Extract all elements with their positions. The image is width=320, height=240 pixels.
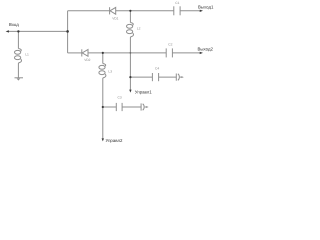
inductor L2: [130, 23, 133, 26]
terminal arrow input: [6, 30, 9, 32]
wire stub upper feedthrough: [180, 76, 182, 78]
wire L3 branch vertical middle: [102, 79, 104, 108]
wire mid row segment 2: [88, 52, 166, 54]
junction C4 row: [129, 76, 131, 78]
capacitor C2 plates: [165, 48, 167, 57]
diode VD2 triangle: [82, 50, 88, 57]
wire input horizontal: [9, 30, 68, 32]
wire L1 to ground: [17, 64, 19, 78]
terminal arrow output1: [200, 10, 203, 12]
svg-text:VD2: VD2: [84, 58, 90, 62]
terminal arrow control2: [102, 138, 104, 141]
svg-text:C1: C1: [175, 1, 179, 5]
inductor L3: [103, 64, 106, 67]
wire C4 row: [130, 76, 152, 78]
capacitor C4 plates: [151, 73, 153, 81]
terminal arrow output2: [200, 52, 203, 54]
junction C3 row: [102, 106, 104, 108]
wire stub lower feedthrough: [145, 106, 147, 108]
wire L2 branch vertical top: [129, 11, 131, 23]
diode VD1 cathode bar: [109, 7, 111, 14]
svg-text:C2: C2: [168, 43, 172, 47]
wire mid row segment 1: [68, 52, 82, 54]
terminal arrow control1: [129, 90, 131, 93]
svg-text:Выход2: Выход2: [198, 47, 214, 52]
feedthrough capacitor arc lower: [143, 104, 144, 111]
diode VD1 triangle: [110, 7, 116, 14]
inductor L1: [18, 49, 21, 52]
junction mid row L3: [102, 52, 104, 54]
svg-text:C4: C4: [155, 67, 159, 71]
wire top rail segment 2: [116, 10, 174, 12]
wire C3 row: [103, 106, 117, 108]
ground arrow triangle: [17, 79, 21, 81]
wire left vertical: [67, 11, 69, 53]
svg-text:L2: L2: [137, 27, 141, 31]
svg-text:Выход1: Выход1: [198, 5, 214, 10]
svg-text:Управл1: Управл1: [135, 89, 152, 94]
wire L3 branch vertical bottom: [102, 107, 104, 139]
svg-text:Вход: Вход: [9, 22, 19, 27]
capacitor C1 plates: [173, 6, 175, 15]
junction left T: [66, 30, 69, 33]
svg-text:L1: L1: [25, 52, 29, 56]
svg-text:VD1: VD1: [112, 16, 118, 20]
diode VD2 cathode bar: [81, 49, 83, 56]
wire C4 to feedthrough: [159, 76, 177, 78]
wire C3 to feedthrough: [122, 106, 141, 108]
ground riser bar: [15, 77, 24, 79]
wire L2 branch vertical middle: [129, 38, 131, 78]
junction mid row cross: [130, 52, 132, 54]
wire L2 branch vertical bottom: [129, 77, 131, 90]
junction input branch: [17, 30, 19, 32]
wire mid row segment 3: [172, 52, 199, 54]
wire top rail segment 1: [68, 10, 110, 12]
junction top rail L2: [129, 10, 131, 12]
svg-text:C3: C3: [118, 96, 122, 100]
wire L1 branch down: [17, 31, 19, 48]
svg-text:Управл2: Управл2: [106, 138, 123, 143]
feedthrough capacitor arc upper: [178, 74, 179, 81]
capacitor C3 plates: [115, 103, 117, 111]
wire top rail segment 3: [180, 10, 200, 12]
svg-text:L3: L3: [108, 69, 112, 73]
terminal arrow feedthrough upper: [181, 76, 183, 78]
terminal arrow feedthrough lower: [146, 106, 148, 108]
feedthrough capacitor plate lower: [140, 103, 142, 110]
wire L3 branch vertical top: [102, 53, 104, 64]
feedthrough capacitor plate upper: [175, 74, 177, 81]
